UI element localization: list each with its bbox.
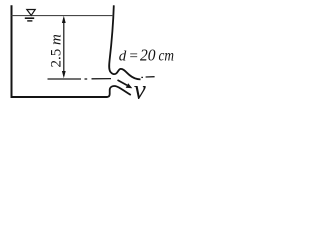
tank left wall and bottom — [12, 5, 108, 97]
svg-text:v: v — [134, 75, 146, 105]
centerline dash-dot, left of nozzle — [48, 78, 112, 80]
water surface line — [12, 15, 114, 17]
water surface symbol: dash 2 below line — [27, 20, 32, 22]
label v (jet velocity) — [134, 75, 146, 105]
centerline dash-dot, right of nozzle — [141, 76, 154, 79]
water surface symbol: dash 1 below line — [25, 17, 34, 19]
dimension line 2.5 m (vertical, arrows both ends) — [62, 16, 66, 79]
label d = 20 cm — [119, 46, 174, 65]
svg-text:2.5 m: 2.5 m — [49, 34, 65, 68]
jet velocity arrow — [118, 80, 133, 88]
water surface symbol: inverted triangle — [27, 10, 35, 16]
tank right wall and upper nozzle lip (wall dips, rises to crest, descends as upper jet boundary) — [109, 5, 140, 79]
label 2.5 m (rotated) — [49, 34, 65, 68]
tank lower nozzle lip (corner up from bottom, curving right into lower jet boundary) — [107, 86, 131, 97]
